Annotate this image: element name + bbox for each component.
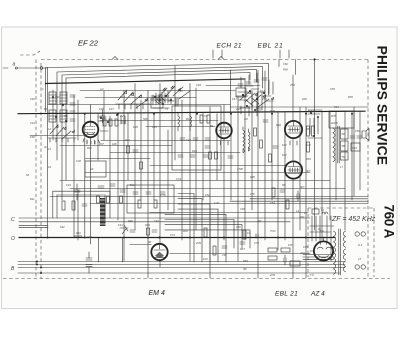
power box horizontals	[310, 226, 334, 232]
tone box cap	[82, 204, 87, 206]
wire v265	[264, 80, 266, 240]
wire bus y253	[170, 253, 310, 255]
dashed power box top	[308, 207, 374, 209]
wire top lid 2	[57, 67, 263, 161]
resistor R44	[254, 128, 257, 136]
aerial coil L1	[49, 92, 56, 104]
wire v238	[237, 97, 239, 261]
wire v160 below EM4	[159, 261, 161, 267]
band switch dense contacts	[151, 91, 171, 108]
svg-text:1N8: 1N8	[214, 201, 219, 205]
wire top lid 1	[46, 64, 269, 113]
staircase wire 1	[178, 194, 194, 263]
HF coupling box	[85, 161, 106, 177]
svg-text:EBL 21: EBL 21	[258, 43, 284, 50]
junction dots mid rail	[84, 113, 86, 115]
tube AZ4 electrodes	[318, 238, 332, 258]
svg-text:6N5: 6N5	[331, 114, 336, 118]
grid cap C46	[100, 110, 105, 123]
cathode resistor R48	[272, 188, 275, 197]
resistor R62	[268, 256, 277, 260]
wire v104	[103, 91, 105, 140]
svg-text:C40: C40	[87, 235, 92, 239]
svg-text:R19: R19	[186, 117, 191, 121]
dial lamps bottom	[355, 265, 365, 269]
svg-text:C54: C54	[270, 201, 275, 205]
wire heavy rail top	[46, 79, 246, 84]
capacitor C34	[205, 146, 210, 148]
svg-text:3.2: 3.2	[100, 87, 104, 91]
speaker box	[351, 143, 360, 151]
svg-text:C17: C17	[260, 89, 265, 93]
osc box coil b	[190, 112, 192, 131]
bottom middle caps	[222, 234, 258, 248]
svg-text:S7: S7	[180, 89, 184, 93]
output transformer primary winding	[333, 128, 335, 162]
wire v128	[127, 114, 129, 180]
resistor R53	[307, 142, 310, 152]
svg-text:3O2: 3O2	[300, 251, 305, 255]
wire v141	[140, 100, 142, 200]
svg-text:R47: R47	[240, 247, 245, 251]
svg-text:4N2: 4N2	[183, 229, 188, 233]
oscillator padder trimmer	[168, 98, 178, 106]
junction dots on ground bus	[47, 237, 49, 239]
tick below EBL21 label	[280, 50, 289, 58]
dashed top bump right	[218, 57, 224, 60]
aerial switch arrows	[50, 125, 75, 139]
svg-text:58I: 58I	[306, 127, 310, 131]
oscillator section box	[172, 106, 221, 170]
svg-text:R17: R17	[125, 138, 130, 142]
svg-text:R42: R42	[76, 231, 81, 235]
wire bus y188	[70, 188, 345, 190]
svg-text:C4: C4	[204, 114, 208, 118]
svg-text:R11: R11	[30, 197, 35, 201]
svg-text:B4: B4	[210, 124, 214, 128]
wire v300	[299, 107, 301, 230]
svg-text:C61: C61	[334, 105, 339, 109]
svg-text:760 A: 760 A	[382, 205, 397, 239]
wire mains bus	[18, 272, 340, 274]
osc cluster dense marks	[236, 92, 273, 112]
wire filament bus 1	[18, 261, 345, 263]
wire v72	[73, 95, 75, 238]
wire pickup stub 1	[19, 224, 48, 226]
AF box parts	[133, 192, 165, 194]
wire pickup bus 1	[19, 217, 310, 219]
AF box resistor	[138, 200, 141, 208]
wire bus y199	[250, 198, 368, 200]
svg-text:25O: 25O	[261, 97, 267, 101]
wire v160 above EM4	[159, 84, 161, 244]
svg-text:DLL: DLL	[130, 183, 135, 187]
wire v293 between EBL	[292, 139, 294, 160]
wire v175	[174, 66, 176, 160]
output transformer core	[338, 126, 339, 163]
wire v217	[216, 114, 218, 180]
tube EBL21 upper envelope	[285, 121, 302, 138]
antenna symbol	[20, 51, 40, 55]
aerial coil L4	[60, 110, 67, 122]
wire pickup stub 2	[19, 226, 48, 228]
svg-text:5P: 5P	[342, 132, 345, 136]
wire bus y97	[85, 97, 196, 99]
tube EBL21 upper electrodes	[288, 122, 299, 145]
osc box coil a	[178, 112, 180, 131]
svg-text:I56: I56	[243, 267, 247, 271]
svg-text:R12: R12	[87, 146, 92, 150]
svg-text:R56: R56	[243, 259, 248, 263]
wire v314 from dashed top	[314, 60, 316, 231]
wire v124	[123, 91, 125, 262]
svg-text:PHILIPS SERVICE: PHILIPS SERVICE	[375, 46, 391, 166]
staircase wire 6	[165, 220, 234, 249]
resistor R32	[215, 152, 218, 159]
aerial coil L2	[60, 92, 67, 104]
tube EM4 electrodes	[154, 244, 165, 250]
rectifier output lines	[303, 255, 334, 260]
svg-text:C8O: C8O	[30, 135, 35, 139]
oscillator switch cluster arrows	[240, 91, 274, 107]
wire bus y120	[100, 120, 218, 122]
svg-text:R9A: R9A	[276, 123, 281, 127]
bias resistor R49	[286, 200, 289, 209]
svg-text:V78: V78	[250, 192, 255, 196]
resistor R61	[281, 248, 290, 252]
AVC resistors	[97, 196, 100, 203]
capacitor C57	[273, 146, 278, 148]
tube EBL21 lower envelope	[285, 161, 302, 178]
power box feed wires	[312, 216, 331, 261]
wire bus y152	[110, 152, 240, 154]
wire bus y90	[80, 90, 235, 92]
padder C44	[74, 184, 80, 200]
svg-text:C26: C26	[76, 159, 81, 163]
svg-text:9P: 9P	[148, 240, 151, 244]
wire bus y145	[60, 145, 172, 147]
resistor R39	[147, 228, 150, 235]
svg-text:8A: 8A	[26, 173, 29, 177]
svg-text:26O: 26O	[301, 97, 307, 101]
band switch SK1 contacts	[155, 97, 165, 104]
staircase wire 2	[178, 199, 202, 262]
drop wire below EBL21 tick b	[295, 60, 297, 75]
speaker caps	[350, 136, 362, 138]
oscillator trimmer bank	[238, 78, 267, 86]
wire y85 stub	[206, 85, 260, 87]
svg-text:1PC: 1PC	[288, 243, 293, 247]
wire v293 above EBL	[292, 75, 294, 120]
svg-text:a: a	[13, 62, 16, 68]
svg-text:ZF1: ZF1	[299, 215, 305, 219]
AZ4 anode links	[310, 250, 334, 252]
svg-text:R58: R58	[283, 68, 288, 72]
aerial coil L2 hatch	[60, 95, 67, 101]
resistor R24	[115, 119, 118, 126]
wire v110	[109, 116, 111, 200]
wire ground bus O	[19, 237, 335, 239]
wire bus y126	[146, 126, 215, 128]
svg-text:4NO5: 4NO5	[331, 121, 338, 125]
capacitor C36	[228, 156, 233, 158]
tube EF22 envelope	[83, 122, 99, 138]
svg-text:C3: C3	[247, 231, 251, 235]
wire bus y135	[30, 135, 84, 137]
wire bus y108	[230, 107, 368, 196]
svg-text:R25: R25	[120, 114, 125, 118]
svg-text:AZ 4: AZ 4	[310, 291, 325, 298]
capacitor C21	[121, 121, 126, 123]
staircase wire 4	[178, 209, 218, 262]
chassis dashed right edge	[367, 60, 369, 279]
resistor R27	[140, 162, 143, 169]
tick below ECH21 label	[213, 50, 222, 58]
wire filament bus 2	[18, 264, 345, 266]
svg-text:R35: R35	[250, 175, 255, 179]
svg-text:EF 22: EF 22	[78, 39, 99, 48]
mains transformer core	[339, 229, 341, 275]
chassis dashed left edge outer	[35, 60, 37, 279]
output transformer secondary sections	[341, 129, 349, 139]
resistor R31	[209, 152, 212, 159]
wire bus y212	[150, 212, 308, 214]
svg-text:I4I7: I4I7	[306, 169, 311, 173]
band switch arrows	[158, 86, 190, 99]
staircase wire 8	[165, 230, 250, 248]
wire v154	[153, 114, 155, 200]
wire v84	[85, 114, 123, 273]
resistor R23	[109, 119, 112, 126]
capacitor C48 a	[86, 258, 92, 260]
tone box left	[53, 191, 110, 218]
osc cluster verticals	[231, 70, 274, 116]
svg-text:R20: R20	[192, 149, 197, 153]
svg-text:K47: K47	[282, 153, 287, 157]
svg-text:C35: C35	[303, 245, 308, 249]
tube ECH21 envelope	[216, 123, 232, 139]
aerial coil L4 hatch	[60, 113, 67, 119]
svg-text:EM 4: EM 4	[149, 290, 165, 297]
svg-text:EBL 21: EBL 21	[275, 291, 298, 298]
mains transformer secondary winding	[343, 231, 345, 272]
staircase wire 5	[165, 214, 226, 262]
wire v98	[97, 114, 99, 160]
wire v272	[271, 101, 273, 200]
svg-text:C79: C79	[254, 241, 259, 245]
wire v231	[230, 114, 232, 200]
wire bus y196	[50, 196, 368, 198]
wire v252	[251, 91, 253, 211]
svg-text:C30: C30	[133, 125, 138, 129]
wire v182	[181, 100, 183, 240]
svg-text:C11: C11	[55, 95, 60, 99]
wire bus y244	[130, 244, 151, 246]
capacitor C48 b	[86, 265, 92, 267]
svg-text:ZF = 452 KHz: ZF = 452 KHz	[331, 216, 376, 223]
fuse box	[290, 261, 300, 266]
capacitor C23	[133, 150, 138, 152]
bottom middle resistor pair	[204, 228, 207, 237]
wire v245	[244, 80, 246, 240]
svg-text:K42: K42	[60, 225, 65, 229]
svg-text:8N5: 8N5	[270, 109, 275, 113]
svg-text:C42: C42	[154, 219, 159, 223]
wire v330	[329, 111, 331, 220]
resistor R45	[260, 140, 263, 148]
wire bus y140	[101, 140, 230, 142]
wire v78	[77, 100, 79, 240]
svg-text:C32: C32	[186, 138, 191, 142]
chassis dashed top edge	[41, 59, 368, 61]
svg-text:O: O	[11, 236, 15, 242]
RF choke bar	[100, 198, 106, 226]
wire v190	[189, 84, 191, 262]
wire top lid 4	[66, 73, 250, 181]
svg-text:1K2: 1K2	[282, 143, 287, 147]
svg-text:C: C	[11, 217, 15, 223]
IF T2 coil b	[249, 129, 251, 151]
chassis dashed left edge inner	[40, 63, 42, 279]
svg-text:HF: HF	[90, 167, 94, 171]
mains switch dots	[36, 261, 38, 263]
svg-text:C47: C47	[109, 107, 114, 111]
EM4 grid resistor	[243, 230, 246, 239]
wire top lid 3	[62, 70, 257, 201]
svg-text:C93: C93	[196, 83, 201, 87]
svg-text:8NO3: 8NO3	[308, 109, 315, 113]
svg-text:V18: V18	[236, 225, 241, 229]
osc box resistors	[200, 115, 203, 123]
svg-text:C14: C14	[120, 95, 125, 99]
EF22 pin ticks	[83, 139, 100, 144]
svg-text:4.7Ω: 4.7Ω	[160, 193, 166, 197]
svg-text:4N7: 4N7	[236, 107, 241, 111]
wire bus y180	[60, 180, 330, 182]
tube ECH21 electrodes	[219, 123, 229, 145]
svg-text:C52: C52	[205, 193, 210, 197]
IF coil L2	[322, 212, 328, 214]
IF coil L1	[312, 209, 319, 214]
capacitor C63 box	[329, 111, 354, 128]
band switch arrows left group	[118, 90, 148, 108]
band switch blobs	[154, 96, 156, 98]
wire v224 below ECH21	[223, 139, 225, 240]
svg-text:56P: 56P	[143, 117, 148, 121]
tube AZ4 envelope	[314, 241, 333, 260]
resistor R51	[307, 126, 310, 136]
wire bus y172	[85, 172, 310, 174]
wire v285	[284, 112, 286, 241]
svg-text:7OO: 7OO	[270, 229, 275, 233]
svg-text:R39: R39	[145, 223, 150, 227]
junction at dashed top	[313, 58, 315, 60]
band switch SK1 box	[151, 98, 163, 108]
wire bus y201	[230, 200, 368, 202]
svg-text:C46: C46	[99, 107, 104, 111]
AF coupling box	[127, 185, 174, 213]
tube EF22 electrodes	[85, 127, 96, 133]
IF T2 coil a	[243, 127, 245, 153]
svg-text:C31: C31	[152, 125, 157, 129]
wire v203	[202, 113, 204, 200]
resistor R42 label lead	[74, 235, 82, 237]
dashed power box left	[307, 208, 309, 277]
antenna terminal circle	[40, 67, 43, 70]
dashed power box right	[373, 208, 375, 277]
right stack dense marks	[308, 110, 322, 138]
wire v293 below EBL	[292, 179, 294, 278]
capacitor C56	[263, 120, 268, 122]
svg-text:C4C: C4C	[30, 97, 35, 101]
aerial cluster blobs	[52, 96, 54, 98]
grid leak cluster	[98, 184, 125, 192]
svg-text:ECH 21: ECH 21	[217, 43, 242, 50]
svg-text:C19: C19	[352, 146, 357, 150]
tone box inner	[57, 195, 105, 218]
wire v360	[359, 111, 361, 190]
tone box resistor a	[62, 201, 65, 210]
wire v306	[305, 107, 307, 278]
staircase wire 3	[178, 204, 210, 262]
svg-text:R40: R40	[128, 219, 133, 223]
band switch contact rail	[116, 104, 150, 109]
svg-text:C17: C17	[232, 97, 237, 101]
svg-text:C73: C73	[170, 233, 175, 237]
pot R40 volume	[120, 225, 128, 234]
aerial coil L3	[49, 110, 56, 122]
resistor R60	[268, 248, 277, 252]
svg-text:T.6: T.6	[310, 273, 314, 277]
wire v90 below EF22	[90, 138, 92, 244]
dashed top bump left	[112, 57, 118, 60]
resistor R26	[127, 146, 130, 153]
chassis dashed bottom edge	[3, 278, 390, 280]
wire v47	[47, 68, 49, 237]
svg-text:C1: C1	[64, 114, 68, 118]
osc box caps low	[178, 155, 208, 157]
wire v345	[344, 111, 346, 230]
wire bus y165	[150, 165, 285, 167]
svg-text:8I6: 8I6	[282, 183, 286, 187]
svg-text:S.8I: S.8I	[306, 143, 311, 147]
svg-text:R7: R7	[258, 219, 262, 223]
svg-text:25O: 25O	[289, 83, 295, 87]
tube EBL21 lower electrodes	[288, 163, 299, 174]
wire v224 above ECH21	[223, 105, 225, 123]
svg-text:T.4: T.4	[320, 229, 324, 233]
svg-text:C41: C41	[118, 223, 123, 227]
svg-text:4N7: 4N7	[99, 142, 104, 146]
dial lamps top	[355, 232, 365, 236]
svg-text:C59: C59	[355, 129, 360, 133]
wire pickup bus 2	[19, 221, 290, 223]
drop wire below EBL21 tick a	[278, 60, 280, 67]
svg-text:470K: 470K	[237, 167, 243, 171]
svg-text:C44: C44	[66, 183, 71, 187]
wire v336	[335, 111, 337, 200]
antenna terminal a lead	[3, 67, 48, 69]
wire v148	[147, 91, 149, 279]
wire v352	[351, 111, 353, 200]
capacitor C42	[152, 230, 157, 232]
resistor R52	[312, 126, 315, 136]
svg-text:V35: V35	[222, 253, 227, 257]
svg-text:2N9: 2N9	[269, 273, 275, 277]
wire v258	[257, 70, 259, 278]
wire v118	[117, 114, 119, 220]
aerial trimmers	[70, 95, 75, 121]
